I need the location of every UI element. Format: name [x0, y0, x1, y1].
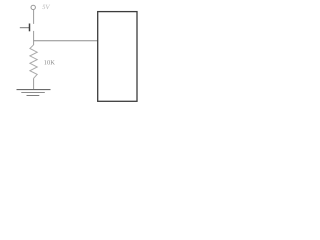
wire from 5V terminal to switch top contact [33, 10, 35, 24]
wire from switch bottom contact to node A [33, 31, 35, 45]
pushbutton switch S1 actuator stem [20, 27, 29, 29]
svg-text:10K: 10K [44, 59, 56, 66]
IC U1 [98, 12, 137, 102]
pushbutton switch S1 actuator bar [29, 24, 31, 32]
power terminal 5V [31, 5, 35, 9]
ground [17, 90, 51, 96]
wire from node A to U1 [34, 40, 98, 42]
svg-text:5V: 5V [42, 4, 50, 11]
resistor R 10K [30, 45, 37, 79]
wire from resistor to ground [33, 78, 35, 89]
